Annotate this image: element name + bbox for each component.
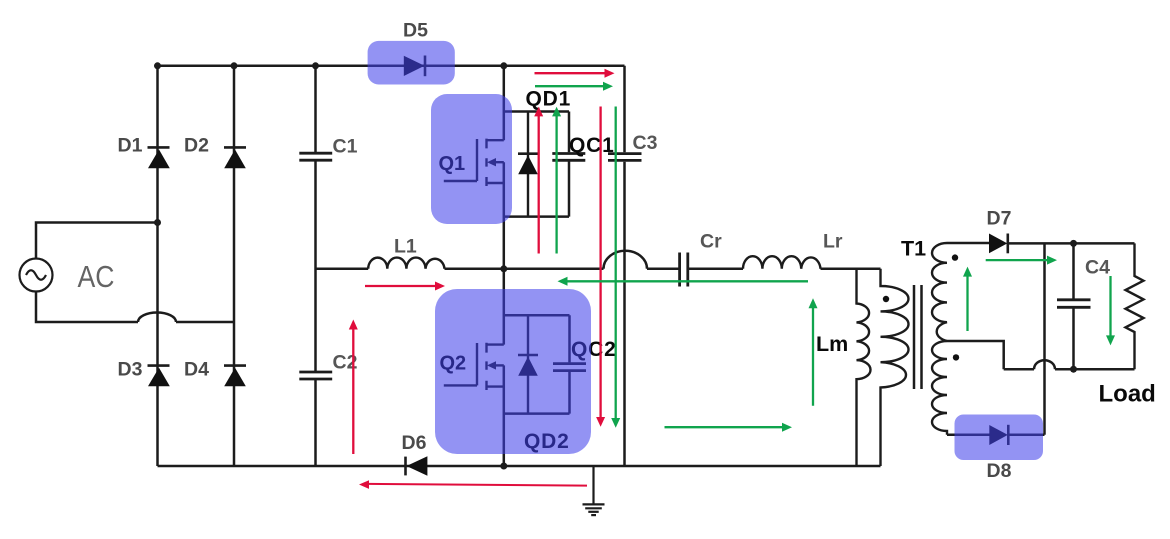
- node T1 secondary top phase dot: [952, 254, 958, 260]
- svg-text:QC1: QC1: [569, 134, 615, 157]
- svg-text:L1: L1: [394, 236, 417, 258]
- red arrow bottom left: [359, 480, 587, 489]
- wire QD1 top: [504, 110, 569, 113]
- red arrow L1 right: [365, 282, 445, 291]
- node top rail D2: [231, 62, 238, 69]
- wire output bottom: [1004, 368, 1135, 371]
- wire QD2 top: [504, 314, 570, 317]
- svg-text:D1: D1: [118, 134, 143, 156]
- green arrow D7 right: [986, 256, 1057, 265]
- wire half-bridge main line Q2 drain: [503, 269, 506, 345]
- transistor Q2: [444, 343, 504, 390]
- node output minus C4: [1070, 366, 1077, 373]
- svg-text:D7: D7: [987, 208, 1012, 230]
- svg-text:C4: C4: [1085, 257, 1110, 279]
- wire QD2 bottom: [504, 412, 570, 415]
- wire QD1 bottom: [504, 215, 569, 218]
- node switch node: [500, 265, 507, 272]
- diode D6: [406, 456, 428, 476]
- transformer T1 primary: [881, 269, 909, 466]
- highlight box Q1: [431, 94, 512, 224]
- wire center tap hop over D8 riser: [1034, 360, 1055, 369]
- svg-text:D3: D3: [118, 359, 143, 381]
- wire half-bridge main line Q2 source to bottom rail: [503, 365, 506, 466]
- diode D8: [989, 425, 1008, 445]
- capacitor QC1: [552, 112, 585, 217]
- transformer T1 secondary bottom winding: [932, 341, 947, 435]
- capacitor Cr: [680, 253, 688, 287]
- wire bottom rail: [158, 465, 881, 468]
- red arrow top rail right: [535, 69, 615, 78]
- svg-text:Lm: Lm: [816, 332, 848, 356]
- svg-text:D5: D5: [403, 19, 428, 41]
- green arrow bottom right: [665, 423, 793, 432]
- wire mid rail (switch node to transformer, hop over C3): [316, 251, 881, 269]
- green arrow Load down: [1106, 276, 1115, 345]
- node Q2 source bottom rail: [500, 463, 507, 470]
- wire AC top to bridge: [36, 223, 158, 259]
- diode D5: [404, 56, 425, 77]
- highlight box Q2: [435, 289, 591, 454]
- highlight box D5: [368, 41, 455, 85]
- wire half-bridge main line Q1 drain: [503, 66, 506, 140]
- diode D3: [148, 366, 170, 387]
- green arrow secondary up: [963, 267, 972, 331]
- wire D8 cathode to riser: [1008, 433, 1044, 436]
- inductor L1: [368, 258, 444, 269]
- wire D7 cathode to output plus: [1008, 242, 1135, 245]
- svg-text:QD1: QD1: [526, 88, 572, 111]
- diode D2: [224, 147, 246, 168]
- transformer T1 core: [914, 285, 922, 389]
- green arrow Lm up: [809, 298, 818, 406]
- AC source V1: [20, 259, 53, 292]
- wire half-bridge main line Q1 source to switch node: [503, 162, 506, 269]
- node T1 primary phase dot: [883, 296, 889, 302]
- svg-text:AC: AC: [78, 259, 115, 294]
- red arrow C2 up: [349, 320, 358, 455]
- svg-text:C1: C1: [333, 136, 358, 158]
- green arrow bus down: [611, 107, 620, 428]
- wire D2-D4 column: [233, 66, 236, 466]
- node top rail D1: [154, 62, 161, 69]
- wire center tap: [947, 341, 1004, 369]
- ground: [583, 466, 605, 515]
- svg-text:D2: D2: [184, 134, 209, 156]
- transformer T1 secondary top winding: [932, 243, 947, 341]
- highlight box D8: [955, 415, 1044, 461]
- node D5-Q1 junction: [500, 62, 507, 69]
- wire secondary bottom to D8: [947, 433, 990, 436]
- diode QD2: [518, 315, 538, 413]
- svg-text:Load: Load: [1099, 381, 1156, 408]
- green arrow mid left: [558, 277, 809, 286]
- diode D4: [224, 366, 246, 387]
- capacitor QC2: [553, 315, 586, 413]
- svg-text:C3: C3: [633, 132, 658, 154]
- svg-text:D4: D4: [184, 359, 209, 381]
- svg-text:D8: D8: [987, 460, 1012, 482]
- green arrow QD1 up: [552, 107, 561, 254]
- wire C4 column: [1072, 243, 1075, 369]
- svg-text:D6: D6: [402, 432, 427, 454]
- wire D1-D3 column: [156, 66, 159, 466]
- wire secondary top to D7: [947, 242, 989, 245]
- transistor Q1: [444, 139, 504, 186]
- red arrow QD1 up: [534, 107, 543, 254]
- inductor Lr: [743, 256, 821, 269]
- diode D7: [989, 234, 1008, 254]
- diode D1: [148, 147, 170, 168]
- wire top DC rail: [158, 65, 625, 68]
- node AC-D1 junction: [154, 219, 161, 226]
- capacitor C4: [1057, 300, 1091, 308]
- red arrow bus down: [596, 107, 605, 427]
- wire C3 column (top rail to bottom rail): [623, 66, 626, 466]
- node output plus C4: [1070, 240, 1077, 247]
- svg-text:T1: T1: [901, 237, 926, 261]
- resistor Load: [1126, 243, 1144, 369]
- svg-text:Lr: Lr: [823, 231, 843, 253]
- capacitor C1: [299, 153, 332, 160]
- node T1 secondary bottom phase dot: [953, 354, 959, 360]
- capacitor C2: [299, 372, 332, 379]
- inductor Lm: [857, 269, 871, 466]
- node top rail C1: [312, 62, 319, 69]
- capacitor C3: [608, 154, 642, 161]
- diode QD1: [518, 112, 538, 217]
- wire AC bottom to bridge (hop over D1 column): [36, 292, 234, 323]
- svg-text:Cr: Cr: [700, 231, 722, 253]
- wire D8 riser: [1043, 243, 1046, 434]
- wire C1-C2 column: [314, 66, 317, 466]
- green arrow top rail right: [535, 82, 613, 91]
